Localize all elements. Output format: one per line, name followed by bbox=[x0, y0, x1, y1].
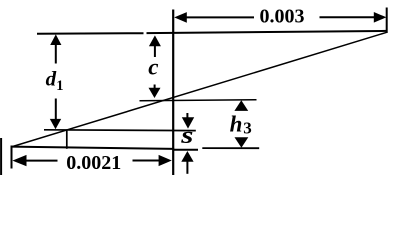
vertical connector tick at steel level bbox=[66, 130, 68, 149]
dimension 0.0021 left shaft bbox=[25, 160, 58, 162]
dimension 0.003 left arrowhead bbox=[174, 12, 187, 23]
dimension d1 down arrow bbox=[55, 99, 57, 121]
svg-text:d: d bbox=[46, 66, 57, 90]
dimension 0.0021 left arrowhead bbox=[12, 155, 26, 166]
dimension 0.003 left shaft bbox=[186, 16, 254, 18]
left edge mark (cropped stroke at image edge) bbox=[0, 138, 2, 175]
right witness tick at strain 0.003 bbox=[386, 8, 388, 34]
dimension h3 up arrow bbox=[234, 100, 248, 111]
left witness tick at strain 0.0021 bbox=[11, 146, 13, 169]
svg-text:0.0021: 0.0021 bbox=[66, 152, 121, 174]
bottom steel level line bbox=[44, 129, 196, 132]
dimension h3 down arrow bbox=[235, 137, 249, 148]
dimension c up arrow bbox=[149, 35, 161, 46]
dimension 0.003 right arrowhead bbox=[374, 12, 387, 23]
strain distribution diagonal bbox=[11, 32, 387, 147]
dimension c down arrow bbox=[154, 85, 156, 89]
dimension 0.0021 right shaft bbox=[133, 160, 164, 162]
dimension s up arrow bbox=[181, 151, 193, 162]
svg-text:s: s bbox=[180, 122, 193, 149]
svg-text:1: 1 bbox=[56, 78, 63, 94]
zero-strain axis (vertical section line) bbox=[172, 10, 174, 176]
svg-text:3: 3 bbox=[243, 119, 252, 138]
svg-text:h: h bbox=[230, 111, 243, 136]
top fiber line (left segment) bbox=[37, 32, 144, 35]
svg-text:0.003: 0.003 bbox=[260, 5, 305, 27]
bottom baseline (right of axis, under s) bbox=[173, 149, 199, 151]
svg-text:c: c bbox=[148, 54, 158, 79]
neutral-axis level line bbox=[140, 100, 257, 101]
bottom baseline under h3 (right segment) bbox=[202, 147, 259, 149]
top fiber line (right segment) bbox=[147, 31, 387, 33]
dimension d1 up arrow bbox=[50, 34, 61, 45]
dimension 0.003 right shaft bbox=[320, 16, 376, 18]
bottom baseline (left segment) bbox=[11, 147, 174, 149]
dimension 0.0021 right arrowhead bbox=[159, 155, 172, 166]
dimension s down arrow bbox=[186, 113, 188, 119]
